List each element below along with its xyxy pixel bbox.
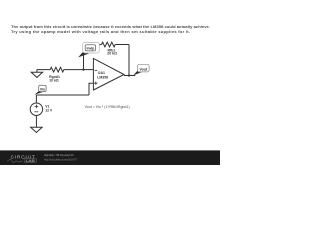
wire Vin node horizontal xyxy=(36,94,89,96)
wire feedback right vertical xyxy=(128,45,130,76)
wire Rfb1 right lead xyxy=(115,44,129,46)
wire Rfb1 left lead xyxy=(84,44,102,46)
svg-text:Vout = Vin * (1+Rfb1/Rgnd1): Vout = Vin * (1+Rfb1/Rgnd1) xyxy=(85,105,130,109)
node flag Vin xyxy=(34,85,46,94)
voltage source V1 xyxy=(30,103,42,115)
ground GND2 xyxy=(31,127,42,132)
op-amp OA1 LM358 xyxy=(93,58,124,90)
footer bar xyxy=(0,150,220,165)
svg-text:Vout: Vout xyxy=(140,68,148,72)
node flag Vout xyxy=(133,64,149,75)
wire riser to plus input xyxy=(89,83,93,95)
footer credit line xyxy=(44,153,74,157)
wire Rgnd1 to inverting node xyxy=(64,69,84,71)
wire op-amp output xyxy=(124,75,135,77)
wire ground to Rgnd1 xyxy=(37,69,50,71)
svg-text:http://circuitlab.com/c/z2s7X7: http://circuitlab.com/c/z2s7X7 xyxy=(44,157,78,161)
footer logo CIRCUIT xyxy=(11,154,36,159)
svg-text:OA1: OA1 xyxy=(98,71,105,75)
node flag invip xyxy=(78,42,99,57)
junction inverting node xyxy=(82,69,84,71)
svg-text:LAB: LAB xyxy=(26,159,36,163)
wire V1 bottom stub xyxy=(35,115,37,127)
wire V1 top stub xyxy=(35,95,37,103)
svg-text:signality / 39 Op-amp 02: signality / 39 Op-amp 02 xyxy=(44,153,74,157)
label Rfb1 value xyxy=(107,48,117,55)
formula text xyxy=(85,105,130,109)
junction output node xyxy=(128,74,130,76)
annotation text line 1 xyxy=(11,24,210,29)
label V1 value xyxy=(45,104,53,112)
footer url line xyxy=(44,157,78,161)
footer logo waveform xyxy=(7,159,22,162)
svg-text:LM358: LM358 xyxy=(97,75,108,79)
label Rgnd1 value xyxy=(49,75,60,83)
resistor Rfb1 xyxy=(102,42,116,47)
footer logo LAB xyxy=(24,158,36,163)
wire feedback left vertical xyxy=(83,45,85,70)
annotation text line 2 xyxy=(11,29,190,34)
resistor Rgnd1 xyxy=(50,67,64,72)
svg-text:20 kΩ: 20 kΩ xyxy=(107,52,117,56)
svg-text:12 V: 12 V xyxy=(45,108,53,112)
ground GND1 xyxy=(31,70,42,78)
svg-text:invip: invip xyxy=(87,47,95,51)
svg-text:10 kΩ: 10 kΩ xyxy=(49,79,59,83)
svg-text:Try using the opamp model with: Try using the opamp model with voltage r… xyxy=(11,29,190,34)
wire into inverting input xyxy=(84,69,94,71)
svg-text:Vin: Vin xyxy=(40,87,45,91)
